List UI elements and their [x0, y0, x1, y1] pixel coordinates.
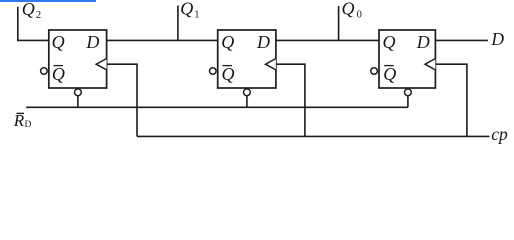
svg-text:cp: cp [491, 124, 508, 144]
wire: Q0 stub vertical [338, 6, 340, 40]
flip-flop FF1 (Q2) box [49, 30, 107, 88]
svg-text:D: D [490, 29, 504, 49]
wire: Q2 stub vertical [17, 7, 19, 41]
wire: RD reset rail [26, 106, 408, 108]
wire: cp rail [137, 135, 490, 137]
wire: external D input to FF3 D pin [435, 39, 488, 41]
svg-text:Q: Q [222, 64, 235, 84]
FF3 reset bubble [405, 89, 412, 96]
svg-text:Q: Q [342, 0, 355, 19]
FF2 clock edge triangle [266, 59, 276, 70]
wire: Q2 stub to FF1 Q pin [17, 39, 49, 41]
FF1 Qbar bubble [41, 68, 48, 75]
wire: FF2 reset stub [246, 96, 248, 108]
blue top border fragment [0, 0, 96, 2]
svg-text:Q: Q [52, 64, 65, 84]
svg-text:0: 0 [357, 10, 362, 21]
FF3 clock edge triangle [425, 59, 435, 70]
FF2 Qbar bubble [210, 68, 217, 75]
svg-text:Q: Q [22, 0, 35, 19]
wire: FF3 Q output to FF2 D input [276, 39, 379, 41]
svg-text:Q: Q [180, 0, 193, 19]
FF2 reset bubble [244, 89, 251, 96]
FF1 reset bubble [75, 89, 82, 96]
svg-text:Q: Q [221, 32, 234, 52]
FF1 clock edge triangle [96, 59, 106, 70]
wire: FF2 Q output to FF1 D input [107, 39, 218, 41]
wire: FF2 clock to cp rail [276, 64, 305, 136]
svg-text:D: D [256, 32, 270, 52]
wire: FF3 clock to cp rail [435, 64, 467, 136]
svg-text:Q: Q [52, 32, 65, 52]
FF3 Qbar bubble [371, 68, 378, 75]
svg-text:Q: Q [383, 64, 396, 84]
svg-text:2: 2 [36, 10, 41, 21]
svg-text:1: 1 [194, 10, 199, 21]
wire: FF3 reset stub [407, 96, 409, 108]
flip-flop FF3 (Q0) box [379, 30, 435, 88]
wire: FF1 clock to cp rail [107, 64, 137, 136]
flip-flop FF2 (Q1) box [218, 30, 276, 88]
svg-text:D: D [85, 32, 99, 52]
svg-text:Q: Q [383, 32, 396, 52]
wire: Q1 stub vertical [177, 6, 179, 41]
svg-text:D: D [416, 32, 430, 52]
svg-text:D: D [25, 120, 32, 130]
wire: FF1 reset stub [77, 96, 79, 108]
